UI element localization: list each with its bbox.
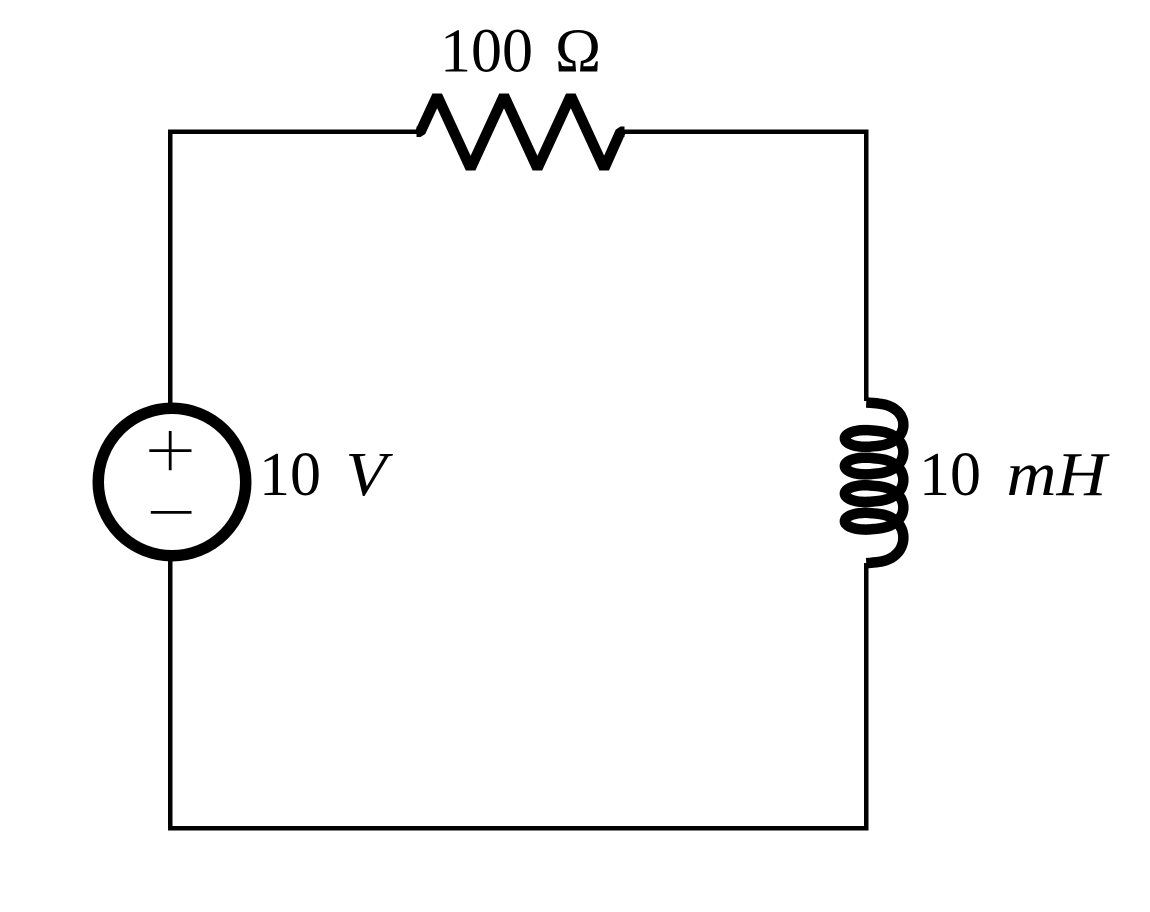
wire: bottom loop from source bottom down, across, and up to inductor bottom xyxy=(170,561,866,829)
wire: top-right segment from resistor right terminal to top-right corner down to inductor top xyxy=(621,132,866,401)
svg-text:10mH: 10mH xyxy=(919,441,1110,509)
svg-text:100Ω: 100Ω xyxy=(440,18,601,86)
inductor coil (helix winding) xyxy=(845,403,903,564)
wire: top-left segment from resistor left terminal to top-left corner down to source top xyxy=(170,132,420,405)
voltage source circle xyxy=(98,408,246,556)
voltage source minus sign xyxy=(151,511,192,514)
voltage source plus sign xyxy=(149,431,191,470)
resistor 100-ohm zigzag xyxy=(417,96,625,169)
